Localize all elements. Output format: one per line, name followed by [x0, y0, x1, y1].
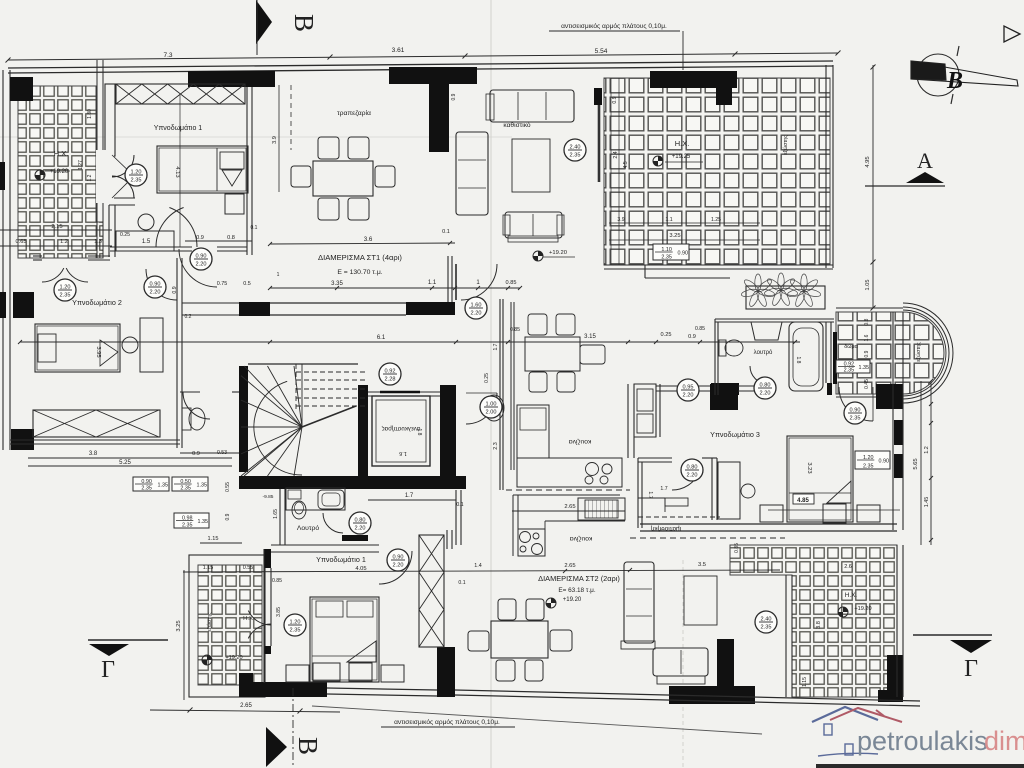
- building top wall double line: [8, 61, 833, 68]
- door label: [284, 614, 306, 636]
- svg-text:Λουτρό: Λουτρό: [297, 524, 320, 532]
- wc tank: [182, 408, 191, 430]
- thin wall right of bathroom: [833, 332, 837, 384]
- svg-text:0.45: 0.45: [864, 379, 870, 389]
- rug living ST1: [512, 139, 550, 192]
- right vertical dims: [872, 65, 874, 308]
- WC bathroom ST1: [292, 501, 306, 519]
- svg-text:H.X.: H.X.: [675, 139, 690, 148]
- svg-text:0.75: 0.75: [217, 281, 228, 287]
- upper stair dashed steps: [296, 371, 368, 373]
- svg-text:1.2: 1.2: [924, 446, 930, 454]
- door label: [564, 139, 586, 161]
- svg-text:1.35: 1.35: [859, 365, 870, 371]
- bathroom ST1 threshold: [342, 535, 368, 541]
- elevator door detail: [380, 391, 420, 394]
- sofa horizontal living ST1: [490, 90, 574, 122]
- corridor door frame wall: [447, 256, 449, 302]
- loveseat living ST1: [505, 212, 562, 238]
- bedroom3 right wall: [892, 312, 894, 530]
- svg-text:1.00: 1.00: [486, 402, 497, 408]
- dim 2.65 kitchen: [512, 510, 625, 512]
- svg-text:3.5: 3.5: [698, 562, 706, 568]
- logo ground line: [818, 753, 878, 756]
- fold bedroom2: [100, 340, 118, 366]
- stair left wall: [239, 366, 248, 472]
- stool: [138, 214, 154, 230]
- svg-text:1.27: 1.27: [78, 160, 84, 170]
- svg-text:+19.20: +19.20: [225, 655, 242, 661]
- wall block left mid outer: [0, 292, 6, 318]
- svg-text:B: B: [946, 68, 963, 94]
- svg-text:4.85: 4.85: [797, 498, 809, 504]
- washbasin counter bathroom ST1: [286, 488, 345, 510]
- svg-text:0.85: 0.85: [695, 326, 705, 332]
- wall block left of veranda: [594, 88, 602, 105]
- veranda B right border: [825, 65, 827, 268]
- svg-text:1.20: 1.20: [863, 455, 874, 461]
- svg-text:3.15: 3.15: [584, 334, 596, 340]
- door bench area double: [169, 208, 197, 248]
- svg-text:2.28: 2.28: [385, 377, 396, 383]
- door label: [190, 248, 212, 270]
- svg-text:dimi: dimi: [984, 726, 1024, 756]
- svg-text:2.15: 2.15: [51, 224, 62, 230]
- door label: [480, 396, 502, 418]
- paper edge line: [816, 764, 1024, 768]
- svg-text:3.8: 3.8: [89, 451, 98, 457]
- corridor wall black left: [239, 302, 270, 316]
- svg-text:1.6: 1.6: [864, 334, 870, 341]
- svg-text:1.4: 1.4: [474, 563, 482, 569]
- shelf: [288, 490, 301, 499]
- ST2 bedroom bottom wall white part: [327, 688, 437, 690]
- dim line y241 bedroom1: [185, 240, 252, 242]
- section trace: [682, 560, 684, 768]
- door label: [465, 297, 487, 319]
- door closet: [672, 473, 699, 490]
- kitchen ST1 left wall: [499, 299, 501, 490]
- burner: [586, 463, 599, 476]
- framed label: [836, 360, 870, 374]
- nightstands ST2: [286, 665, 309, 682]
- svg-text:κουζίνα: κουζίνα: [569, 438, 592, 446]
- washbasin corridor: [484, 395, 504, 421]
- bed bedroom3: [787, 436, 853, 522]
- door bedroom2 top double: [42, 268, 64, 282]
- svg-text:0.50: 0.50: [180, 479, 191, 485]
- svg-text:1.45: 1.45: [924, 497, 930, 508]
- nightstand3 a: [760, 505, 783, 522]
- wardrobe ST2 truss: [419, 535, 444, 647]
- ST2 bedroom left wall: [263, 549, 265, 683]
- bed bedroom1: [157, 146, 248, 193]
- svg-text:1.7: 1.7: [660, 486, 667, 492]
- svg-text:2.35: 2.35: [850, 416, 861, 422]
- svg-text:λουτρό: λουτρό: [754, 349, 773, 356]
- svg-text:0.85: 0.85: [510, 327, 520, 333]
- door label: [349, 512, 371, 534]
- dining chairs: [318, 137, 339, 159]
- svg-text:0.9: 0.9: [172, 286, 178, 293]
- dining table ST2: [491, 621, 548, 658]
- bedroom2 bottom wall: [10, 439, 180, 441]
- svg-text:0.1: 0.1: [458, 580, 465, 586]
- bathroom big walls: [715, 318, 834, 320]
- svg-text:0.2: 0.2: [185, 314, 192, 320]
- dim line y243 veranda A: [0, 245, 112, 247]
- corridor wall black right: [406, 302, 455, 315]
- logo window squares: [824, 724, 832, 735]
- hatch B dims: [609, 222, 760, 224]
- bathroom bottom black: [711, 383, 739, 395]
- svg-text:+19.20: +19.20: [549, 250, 567, 256]
- svg-text:1.15: 1.15: [802, 677, 808, 687]
- svg-text:0.65: 0.65: [16, 239, 27, 245]
- svg-text:1.20: 1.20: [60, 285, 71, 291]
- svg-text:0.92: 0.92: [385, 369, 396, 375]
- svg-text:0.90: 0.90: [141, 479, 152, 485]
- dining table ST1: [313, 161, 373, 196]
- svg-text:1.80: 1.80: [87, 109, 93, 119]
- door corridor ST1: [461, 264, 497, 300]
- svg-text:εξώστης: εξώστης: [207, 612, 213, 632]
- section marker B bottom: [266, 727, 287, 767]
- small triangle icon top right: [1004, 26, 1020, 42]
- svg-text:3.9: 3.9: [272, 136, 278, 144]
- svg-text:εξώστης: εξώστης: [916, 342, 922, 362]
- svg-text:petroulakis: petroulakis: [857, 726, 988, 756]
- kitchen ST1 dashed floor line: [506, 489, 630, 491]
- svg-text:2.40: 2.40: [570, 145, 581, 151]
- left vertical dim bottom veranda: [183, 570, 185, 700]
- scan fold line: [490, 0, 492, 768]
- T-wall ST2 living: [669, 639, 755, 704]
- svg-text:0.55: 0.55: [243, 565, 254, 571]
- black L bottom-right veranda: [878, 655, 903, 702]
- closet/bedroom3 long bottom wall: [640, 523, 897, 525]
- svg-text:0.9: 0.9: [451, 93, 457, 100]
- svg-text:H.X.: H.X.: [845, 592, 858, 599]
- svg-text:3.23: 3.23: [806, 462, 812, 473]
- svg-text:1.10: 1.10: [661, 247, 672, 253]
- sofa vertical living ST1: [456, 132, 488, 215]
- svg-text:2.20: 2.20: [196, 262, 207, 268]
- svg-text:0.8: 0.8: [227, 235, 235, 241]
- svg-text:0.80: 0.80: [687, 465, 698, 471]
- svg-text:2.40: 2.40: [761, 617, 772, 623]
- dim 1.7 hallway: [368, 499, 456, 501]
- bedroom2 right wall: [176, 258, 178, 448]
- svg-text:0.85: 0.85: [272, 578, 282, 584]
- svg-text:3.95: 3.95: [95, 346, 101, 357]
- svg-text:1.15: 1.15: [208, 536, 219, 542]
- tiled round balcony right: [836, 312, 944, 394]
- svg-text:2.20: 2.20: [687, 473, 698, 479]
- wall top veranda right: [650, 71, 737, 88]
- vertical dim 3.9: [278, 85, 280, 192]
- door label: [387, 549, 409, 571]
- svg-text:αντισεισμικός αρμός πλάτους 0,: αντισεισμικός αρμός πλάτους 0,10μ.: [394, 718, 500, 726]
- svg-text:2.20: 2.20: [355, 526, 366, 532]
- svg-text:0.90: 0.90: [393, 555, 404, 561]
- wardrobe zone right wall ST2: [446, 530, 448, 549]
- elevator car: [372, 396, 430, 466]
- door label: [754, 377, 776, 399]
- rug ST2: [684, 576, 717, 625]
- balcony inner arc: [903, 310, 946, 396]
- svg-text:0.9: 0.9: [612, 96, 618, 103]
- loveseat ST2: [653, 648, 708, 676]
- svg-text:2.6: 2.6: [844, 564, 852, 570]
- svg-text:0.80: 0.80: [355, 518, 366, 524]
- spiral staircase: [294, 427, 302, 476]
- svg-text:1.5: 1.5: [142, 239, 151, 245]
- svg-text:2.35: 2.35: [141, 486, 152, 492]
- pillow 1: [220, 152, 244, 169]
- svg-text:2.20: 2.20: [393, 563, 404, 569]
- door WC room: [183, 392, 210, 419]
- svg-text:0.55: 0.55: [225, 482, 231, 492]
- svg-text:0.1: 0.1: [251, 225, 258, 231]
- section marker Gamma right: [913, 634, 992, 636]
- svg-text:3.25: 3.25: [176, 620, 182, 631]
- svg-text:2.35: 2.35: [290, 628, 301, 634]
- svg-text:2.35: 2.35: [844, 368, 855, 374]
- logo roof blue: [812, 707, 878, 722]
- svg-text:τραπεζαρία: τραπεζαρία: [337, 109, 371, 117]
- balcony bottom border: [836, 396, 903, 398]
- svg-text:Υπνοδωμάτιο 3: Υπνοδωμάτιο 3: [710, 430, 760, 439]
- corridor top wall white part: [270, 302, 406, 304]
- svg-text:2.35: 2.35: [761, 625, 772, 631]
- framed label: [174, 513, 209, 529]
- svg-text:1.60: 1.60: [471, 303, 482, 309]
- pillow b: [347, 601, 373, 617]
- compass: [917, 54, 959, 96]
- dim line y3.6: [270, 243, 455, 244]
- ST2 bedroom top wall: [271, 544, 379, 546]
- svg-text:0.9: 0.9: [192, 451, 200, 457]
- svg-text:Υπνοδωμάτιο 2: Υπνοδωμάτιο 2: [72, 298, 122, 307]
- ST2 wall right of elevator: [455, 490, 457, 545]
- svg-text:2.65: 2.65: [240, 703, 252, 709]
- svg-text:1.3: 1.3: [94, 239, 102, 245]
- door entrance top: [466, 393, 497, 424]
- bathroom right wall black: [827, 383, 832, 395]
- svg-text:Υπνοδωμάτιο 1: Υπνοδωμάτιο 1: [316, 555, 366, 564]
- stair center post: [301, 364, 303, 427]
- svg-text:2.65: 2.65: [564, 563, 575, 569]
- scan artifact line: [0, 136, 512, 138]
- svg-text:0.90: 0.90: [678, 251, 689, 257]
- hatch E left wall: [785, 575, 787, 697]
- svg-text:Ε = 130.70 τ.μ.: Ε = 130.70 τ.μ.: [337, 269, 382, 276]
- svg-text:1.1: 1.1: [665, 217, 672, 223]
- svg-text:2.20: 2.20: [471, 311, 482, 317]
- svg-text:1.65: 1.65: [273, 509, 279, 519]
- wardrobe column black: [437, 647, 455, 697]
- armchair kitchen: [580, 345, 605, 364]
- svg-text:0.25: 0.25: [661, 332, 672, 338]
- svg-text:1.7: 1.7: [647, 491, 653, 498]
- stair bold diagonal: [302, 406, 356, 427]
- svg-text:4.5: 4.5: [623, 161, 629, 168]
- svg-text:Γ: Γ: [964, 656, 978, 682]
- section marker B top: [256, 0, 272, 44]
- top dimension line: [8, 53, 838, 60]
- bed dim line: [179, 95, 181, 247]
- thin wall left edge of veranda B: [598, 105, 601, 182]
- svg-text:6.1: 6.1: [377, 335, 386, 341]
- framed label: [172, 477, 208, 492]
- svg-text:Υπνοδωμάτιο 1: Υπνοδωμάτιο 1: [154, 124, 202, 132]
- veranda D black corner: [239, 673, 253, 697]
- door bedroom2 right: [146, 269, 177, 300]
- wall T stem: [429, 84, 449, 152]
- svg-text:2.3: 2.3: [493, 442, 499, 450]
- desk bedroom2: [140, 318, 163, 372]
- svg-text:1.6: 1.6: [399, 450, 407, 456]
- svg-text:2.35: 2.35: [570, 153, 581, 159]
- svg-text:3.61: 3.61: [392, 47, 405, 54]
- svg-text:0.8: 0.8: [864, 318, 870, 325]
- door bedroom3: [839, 387, 873, 421]
- svg-text:2.35: 2.35: [863, 464, 874, 470]
- svg-text:B: B: [289, 14, 319, 32]
- svg-text:0.9: 0.9: [864, 350, 870, 357]
- pillow bedroom2: [38, 334, 56, 362]
- long bottom outer wall: [455, 690, 920, 701]
- svg-text:0.98: 0.98: [182, 516, 193, 522]
- sink strip kitchen ST1: [634, 384, 656, 437]
- bed bedroom2: [35, 324, 120, 372]
- svg-text:1.20: 1.20: [131, 170, 142, 176]
- svg-text:3.85: 3.85: [276, 607, 282, 617]
- svg-text:1.35: 1.35: [197, 483, 208, 489]
- window pier right wall: [894, 420, 903, 478]
- door bedroom1 bottom: [179, 249, 217, 287]
- dim bottom 2.65: [150, 710, 340, 712]
- door label: [755, 611, 777, 633]
- svg-text:2.4: 2.4: [613, 151, 619, 158]
- burner: [602, 464, 612, 474]
- tiled veranda bottom-right H.X.: [730, 545, 897, 697]
- svg-text:0.95: 0.95: [683, 385, 694, 391]
- nightstand bedroom1: [225, 194, 244, 214]
- framed label: [653, 244, 689, 261]
- planter box with flowers: [746, 286, 825, 309]
- bedroom3 top wall black right: [876, 384, 903, 409]
- svg-text:ιματιοθήκη: ιματιοθήκη: [650, 525, 681, 532]
- wall block left bottom: [11, 429, 34, 450]
- wall top bedroom1: [188, 71, 275, 87]
- svg-text:2.35: 2.35: [661, 255, 672, 261]
- svg-text:2.35: 2.35: [180, 486, 191, 492]
- balcony top border: [836, 307, 903, 309]
- sofa vertical ST2: [624, 562, 654, 643]
- door label: [677, 379, 699, 401]
- svg-text:+19.25: +19.25: [672, 154, 691, 160]
- svg-text:Ε= 63.18 τ.μ.: Ε= 63.18 τ.μ.: [558, 587, 596, 594]
- svg-text:1.2: 1.2: [60, 239, 68, 245]
- svg-text:7.3: 7.3: [163, 52, 172, 59]
- burner: [585, 476, 593, 484]
- stair box top: [248, 363, 358, 365]
- bathtub: [789, 322, 823, 391]
- elevator right wall: [440, 385, 456, 477]
- bench bedroom1: [116, 231, 174, 251]
- svg-text:κουζίνα: κουζίνα: [570, 535, 593, 543]
- stool bedroom3: [741, 484, 755, 498]
- door bedroom ST2 left double: [248, 611, 271, 625]
- blanket fold: [222, 170, 242, 186]
- svg-text:0.85: 0.85: [506, 280, 517, 286]
- svg-text:A: A: [917, 148, 933, 173]
- wall block left mid: [13, 292, 34, 318]
- svg-text:ανελκυστήρας: ανελκυστήρας: [382, 425, 421, 432]
- svg-text:1.35: 1.35: [198, 519, 209, 525]
- svg-text:1: 1: [277, 272, 280, 278]
- svg-text:0.85: 0.85: [734, 543, 740, 553]
- svg-text:1.15: 1.15: [203, 565, 214, 571]
- svg-text:-9.85: -9.85: [263, 494, 274, 500]
- wall foot below top right: [716, 88, 732, 105]
- svg-text:1.8: 1.8: [795, 357, 801, 364]
- svg-text:+19.20: +19.20: [854, 606, 871, 612]
- kitchen ST1 counters: [517, 405, 549, 458]
- nightstand3 b: [823, 504, 846, 523]
- door label: [379, 363, 401, 385]
- svg-text:1.05: 1.05: [865, 280, 871, 291]
- svg-text:3.9: 3.9: [617, 217, 624, 223]
- svg-text:2.35: 2.35: [182, 523, 193, 529]
- door bedroom ST2: [379, 551, 412, 584]
- bedroom ST2 wall black lower: [264, 646, 271, 654]
- framed label: [855, 451, 890, 470]
- svg-text:2.65: 2.65: [564, 504, 575, 510]
- door label: [144, 276, 166, 298]
- kitchen table ST1: [525, 337, 580, 371]
- svg-text:3.8: 3.8: [816, 621, 822, 629]
- svg-text:1.2: 1.2: [87, 174, 93, 181]
- svg-text:+19.20: +19.20: [563, 597, 582, 603]
- svg-text:H.X: H.X: [243, 616, 253, 622]
- bedroom1 right wall: [246, 87, 248, 255]
- svg-text:0.90: 0.90: [196, 254, 207, 260]
- svg-text:0.80: 0.80: [760, 383, 771, 389]
- svg-text:2.35: 2.35: [60, 293, 71, 299]
- balcony outer arc: [903, 303, 953, 403]
- dim 4.85 framed: [793, 494, 814, 504]
- svg-text:1.7: 1.7: [405, 493, 414, 499]
- corridor top wall left part: [182, 302, 239, 304]
- svg-text:2.20: 2.20: [683, 393, 694, 399]
- svg-text:H.X.: H.X.: [54, 149, 69, 158]
- closet room walls: [638, 457, 672, 459]
- wall column bedroom1 left: [105, 84, 115, 156]
- svg-text:2.20: 2.20: [760, 391, 771, 397]
- bedroom2 top wall: [33, 255, 42, 257]
- bedroom2 wardrobe truss: [33, 410, 160, 437]
- pillow a: [316, 601, 343, 617]
- closet truss bedroom1: [116, 84, 245, 104]
- svg-text:0.53: 0.53: [217, 450, 227, 456]
- svg-text:αντισεισμικός αρμός πλάτους 0,: αντισεισμικός αρμός πλάτους 0,10μ.: [561, 22, 667, 30]
- wardrobe right wall bedroom3: [711, 458, 713, 520]
- svg-text:2.00: 2.00: [486, 410, 497, 416]
- svg-text:ΔΙΑΜΕΡΙΣΜΑ ΣΤ2 (2αρι): ΔΙΑΜΕΡΙΣΜΑ ΣΤ2 (2αρι): [538, 574, 620, 583]
